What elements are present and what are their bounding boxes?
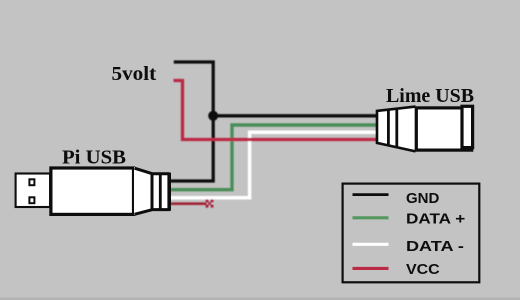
- svg-text:VCC: VCC: [406, 262, 440, 278]
- svg-text:DATA +: DATA +: [406, 211, 465, 227]
- svg-text:Pi USB: Pi USB: [62, 147, 126, 169]
- svg-text:DATA -: DATA -: [406, 239, 464, 255]
- svg-text:GND: GND: [406, 191, 439, 207]
- svg-text:Lime USB: Lime USB: [386, 85, 474, 107]
- svg-text:5volt: 5volt: [112, 63, 157, 85]
